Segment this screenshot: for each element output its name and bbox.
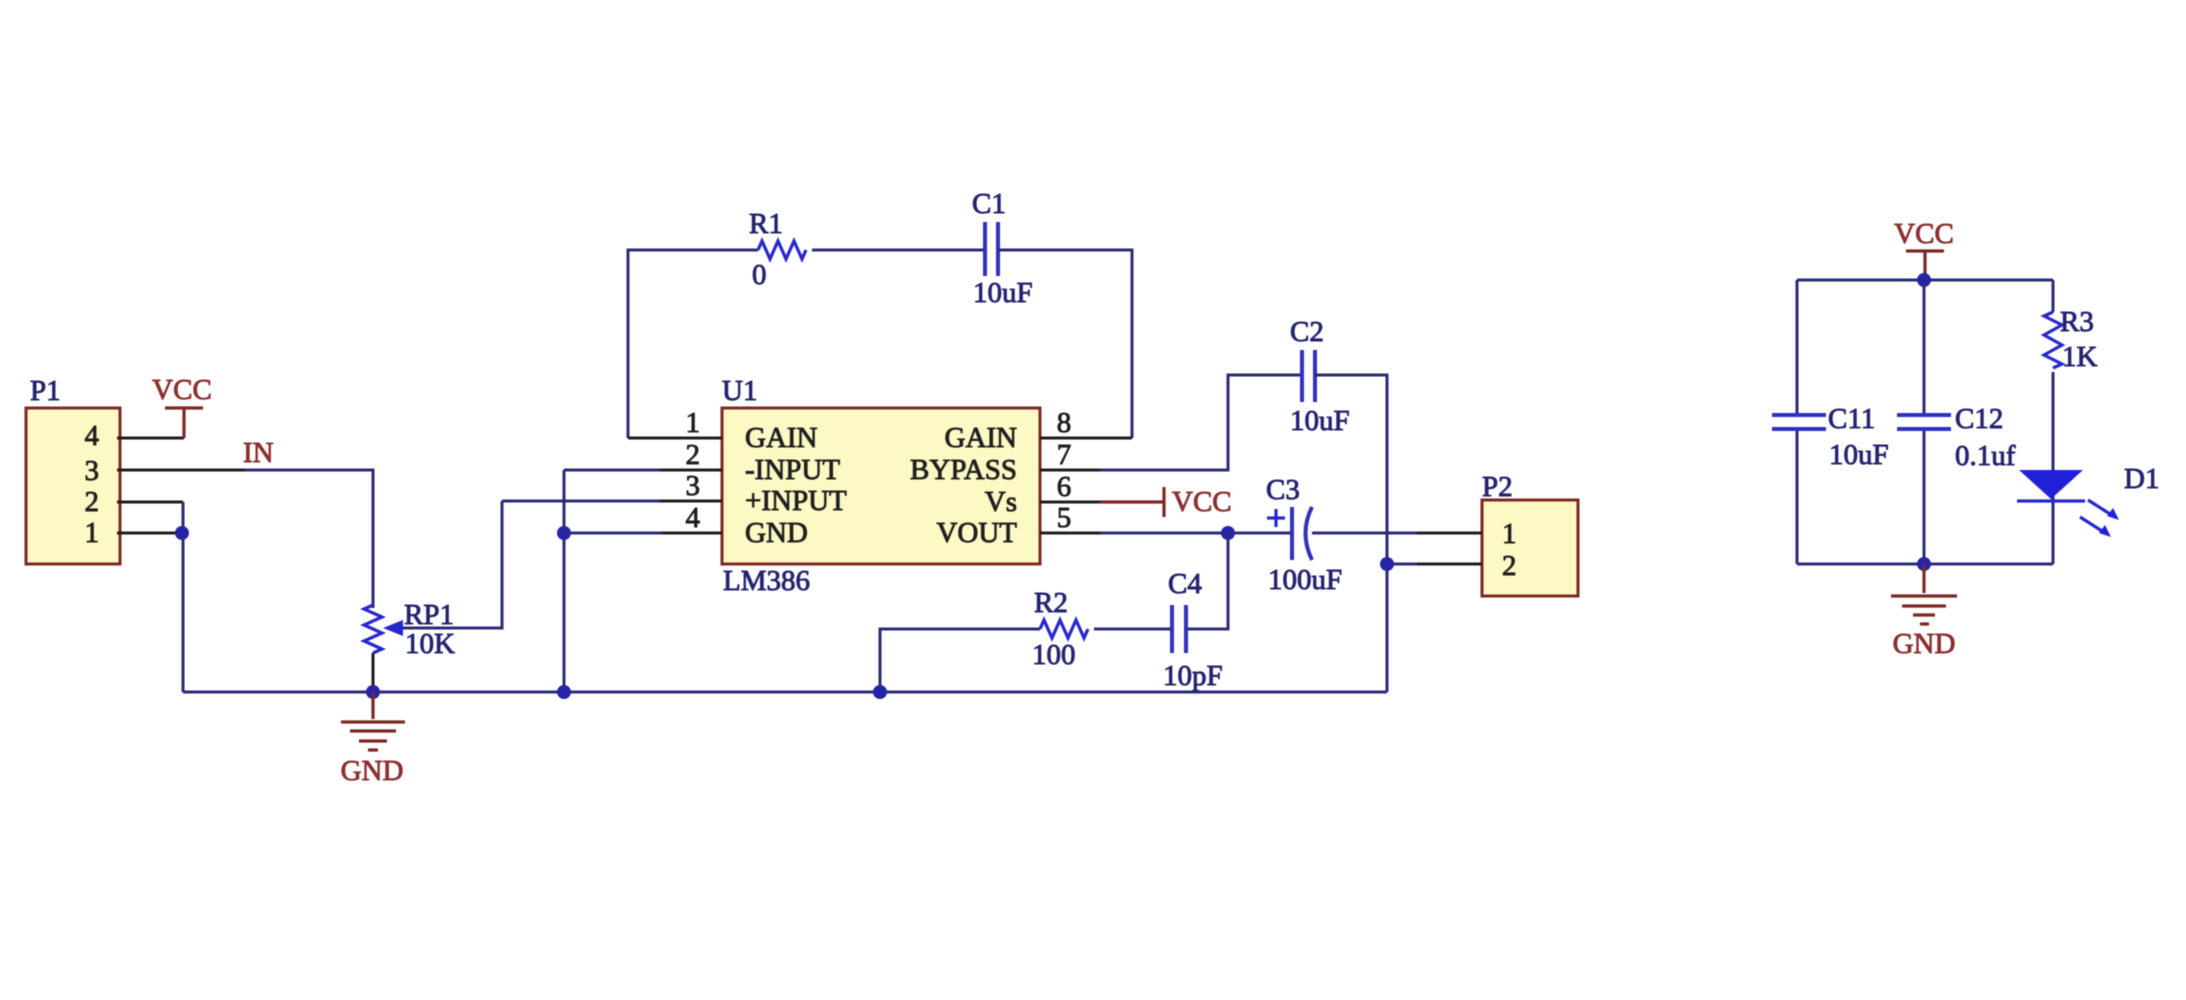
svg-text:4: 4 <box>686 502 701 534</box>
node junction bottom rail <box>1917 557 1931 571</box>
node junction P2 pin2 <box>1380 557 1394 571</box>
U1 pin 6 stub <box>1040 501 1100 504</box>
svg-text:VCC: VCC <box>1894 218 1954 250</box>
svg-text:R2: R2 <box>1034 587 1068 619</box>
svg-text:GAIN: GAIN <box>745 422 818 454</box>
svg-text:2: 2 <box>686 439 701 471</box>
wire R2 left to bus branch <box>880 629 1040 692</box>
node junction VOUT <box>1221 526 1235 540</box>
svg-text:P1: P1 <box>30 375 61 407</box>
wire U1 pin2 net <box>564 469 660 472</box>
U1 pin 4 stub <box>662 532 722 535</box>
node junction top rail <box>1917 273 1931 287</box>
svg-text:-INPUT: -INPUT <box>745 454 840 486</box>
IC U1 LM386 <box>686 375 1072 597</box>
svg-text:5: 5 <box>1057 502 1072 534</box>
svg-text:1K: 1K <box>2062 341 2098 373</box>
svg-text:GND: GND <box>341 755 404 787</box>
power VCC (left, at P1 pin 4) <box>152 374 212 438</box>
wire R2 to C4 <box>1094 628 1172 631</box>
P1 pin 4 wire <box>117 437 184 440</box>
svg-text:VCC: VCC <box>1172 486 1232 518</box>
svg-text:C1: C1 <box>972 188 1006 220</box>
svg-text:10uF: 10uF <box>1829 439 1889 471</box>
svg-text:3: 3 <box>85 455 100 487</box>
capacitor C12 <box>1897 403 2016 472</box>
wire P2 pin2 to vertical <box>1387 563 1417 566</box>
connector P2 <box>1482 471 1578 596</box>
ground (left) <box>341 692 405 787</box>
svg-text:2: 2 <box>85 486 100 518</box>
wire U1 pin4 net <box>564 532 662 535</box>
svg-text:100uF: 100uF <box>1268 564 1342 596</box>
svg-text:P2: P2 <box>1482 471 1513 503</box>
capacitor C2 <box>1290 316 1350 437</box>
resistor R1 <box>749 208 806 291</box>
wire R1 to C1 <box>812 249 985 252</box>
U1 pin 3 stub <box>660 500 722 503</box>
wire VOUT net <box>1100 532 1292 535</box>
P1 pin 2 wire <box>117 501 183 504</box>
node junction bus at x880 <box>873 685 887 699</box>
svg-text:C11: C11 <box>1828 403 1875 435</box>
ground (right) <box>1891 564 1957 660</box>
svg-text:2: 2 <box>1502 550 1517 582</box>
wire top rail <box>1797 279 2053 282</box>
wire vertical -INPUT/GND to bus <box>563 470 566 692</box>
wire +INPUT to wiper vertical <box>502 500 660 503</box>
LED D1 <box>2017 463 2159 537</box>
node junction U1 pin4 <box>557 526 571 540</box>
wire BYPASS to C2 <box>1100 375 1302 470</box>
svg-text:IN: IN <box>243 437 274 469</box>
svg-text:3: 3 <box>686 470 701 502</box>
wire feedback loop left vertical <box>628 250 758 438</box>
wire pin2 corner down <box>182 502 185 533</box>
svg-text:GAIN: GAIN <box>945 422 1018 454</box>
wire C1 to feedback right vertical <box>998 250 1132 438</box>
svg-text:6: 6 <box>1057 471 1072 503</box>
wire C2 right to long vertical <box>1315 375 1387 692</box>
svg-text:10uF: 10uF <box>1290 405 1350 437</box>
wire IN net to RP1 top <box>245 470 373 608</box>
svg-text:7: 7 <box>1057 439 1072 471</box>
resistor R2 <box>1032 587 1088 671</box>
wire bottom rail <box>1797 563 2053 566</box>
capacitor C11 <box>1772 403 1889 471</box>
wire ground bus <box>183 691 1387 694</box>
svg-text:1: 1 <box>686 407 701 439</box>
U1 pin 5 stub <box>1040 532 1100 535</box>
U1 pin 1 stub <box>628 437 722 440</box>
P2 pin 1 stub <box>1417 532 1482 535</box>
P2 pin 2 stub <box>1417 563 1482 566</box>
svg-text:C4: C4 <box>1168 568 1202 600</box>
svg-text:10uF: 10uF <box>973 277 1033 309</box>
capacitor C3 <box>1266 474 1342 596</box>
U1 pin 8 stub <box>1040 437 1132 440</box>
U1 pin 2 stub <box>660 469 722 472</box>
capacitor C1 <box>972 188 1033 309</box>
svg-text:VCC: VCC <box>152 374 212 406</box>
power VCC (right circuit) <box>1894 218 1954 280</box>
svg-text:D1: D1 <box>2124 463 2159 495</box>
svg-text:C2: C2 <box>1290 316 1324 348</box>
svg-text:+INPUT: +INPUT <box>745 485 847 517</box>
wire left vertical to ground bus <box>182 533 185 692</box>
svg-text:R3: R3 <box>2060 306 2094 338</box>
svg-text:C12: C12 <box>1955 403 2003 435</box>
svg-text:10K: 10K <box>405 628 455 660</box>
U1 pin 7 stub <box>1040 469 1100 472</box>
svg-text:U1: U1 <box>722 375 757 407</box>
node junction RP1 bottom / bus <box>366 685 380 699</box>
wire C12 branch <box>1923 280 1926 564</box>
wire VOUT junction down to R2/C4 line <box>1186 533 1228 629</box>
svg-text:Vs: Vs <box>985 486 1017 518</box>
svg-text:LM386: LM386 <box>723 565 810 597</box>
svg-text:100: 100 <box>1032 639 1076 671</box>
svg-text:1: 1 <box>1502 518 1517 550</box>
wire C3 to P2 pin1 <box>1312 532 1417 535</box>
resistor R3 <box>2044 306 2098 373</box>
P1 pin 3 wire <box>117 469 245 472</box>
svg-text:8: 8 <box>1057 407 1072 439</box>
P1 pin 1 wire <box>117 532 176 535</box>
svg-text:VOUT: VOUT <box>936 517 1017 549</box>
potentiometer RP1 <box>364 501 502 686</box>
svg-text:4: 4 <box>85 420 100 452</box>
svg-text:BYPASS: BYPASS <box>910 454 1017 486</box>
svg-text:10pF: 10pF <box>1163 660 1223 692</box>
connector P1 <box>26 375 120 564</box>
svg-text:GND: GND <box>745 517 808 549</box>
node junction bus at x564 <box>557 685 571 699</box>
node junction P1 pin1/pin2 <box>175 526 189 540</box>
power VCC (at U1 pin 6) <box>1100 486 1232 518</box>
wire R3/D1 branch <box>2052 280 2055 564</box>
svg-text:C3: C3 <box>1266 474 1300 506</box>
svg-text:RP1: RP1 <box>404 599 454 631</box>
svg-text:0.1uf: 0.1uf <box>1955 440 2016 472</box>
svg-text:GND: GND <box>1893 628 1956 660</box>
capacitor C4 <box>1163 568 1223 692</box>
svg-text:0: 0 <box>752 259 767 291</box>
svg-text:R1: R1 <box>749 208 783 240</box>
wire C11 branch <box>1796 280 1799 564</box>
svg-text:1: 1 <box>85 517 100 549</box>
